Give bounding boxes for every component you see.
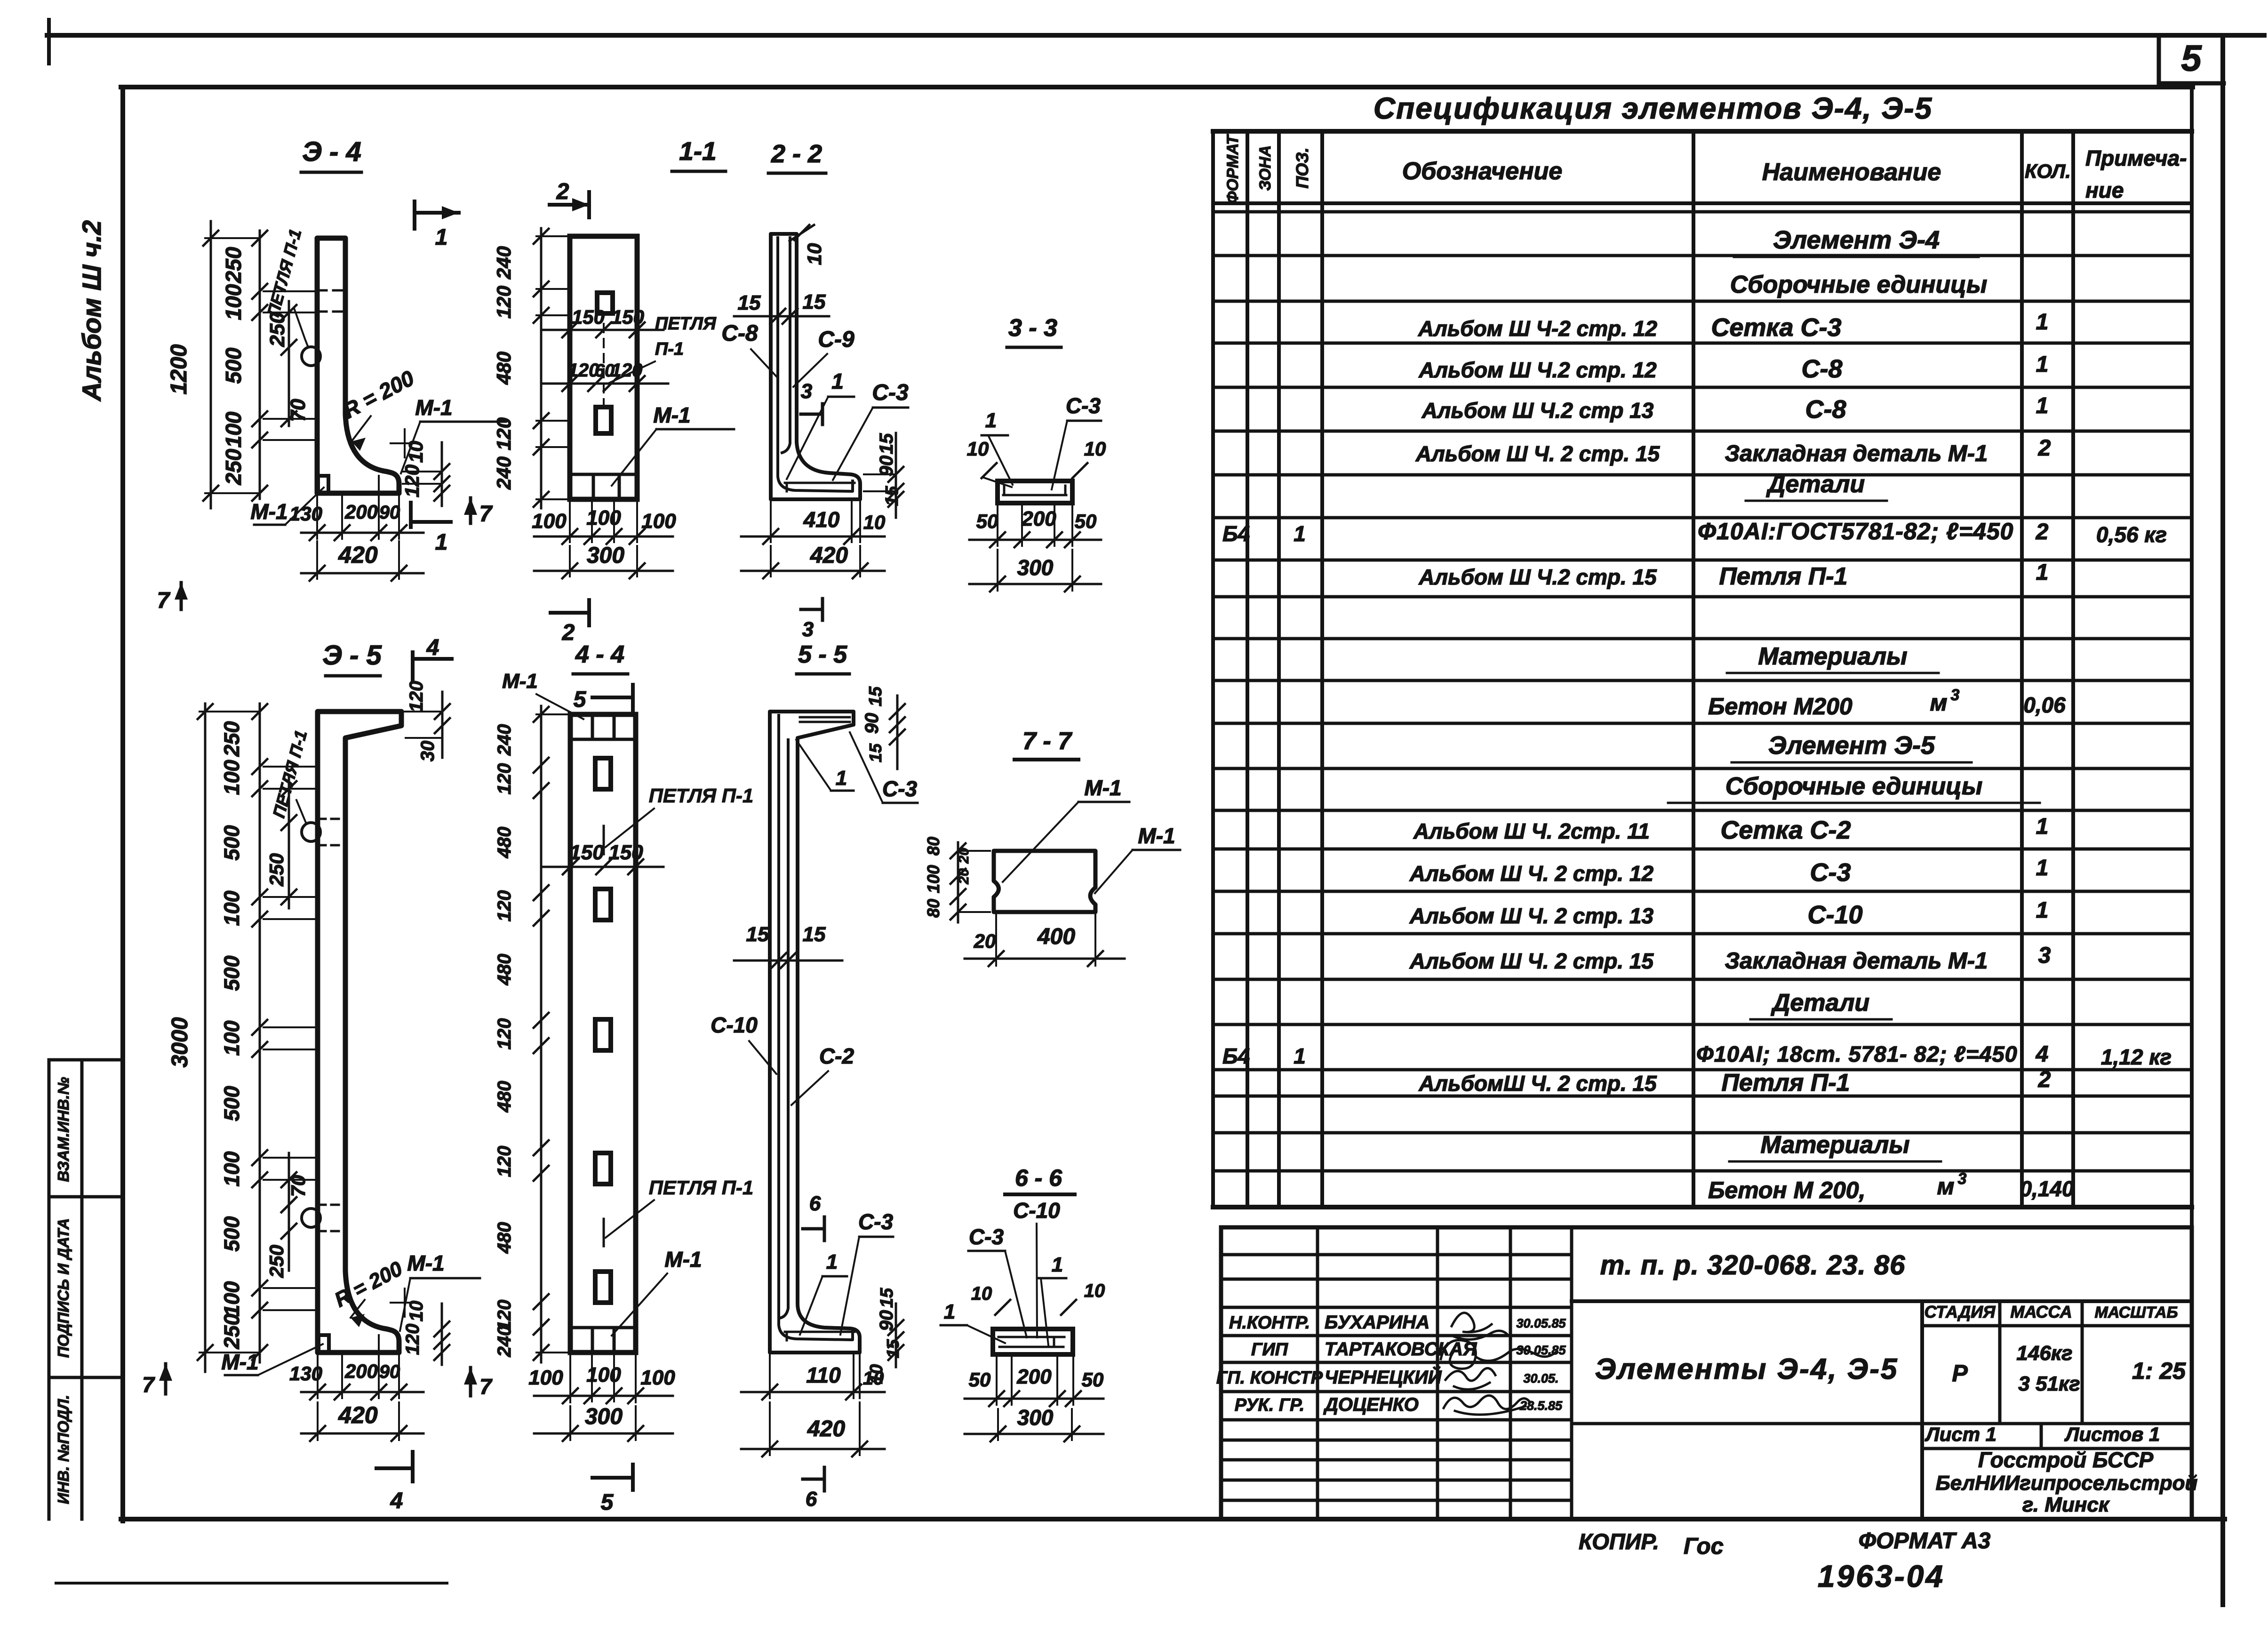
svg-text:Сборочные единицы: Сборочные единицы: [1725, 773, 1983, 800]
svg-text:15: 15: [877, 1288, 897, 1308]
svg-text:С-2: С-2: [819, 1044, 854, 1068]
svg-text:10: 10: [971, 1283, 992, 1304]
svg-text:Альбом Ш Ч. 2 стр. 15: Альбом Ш Ч. 2 стр. 15: [1415, 441, 1661, 466]
svg-text:100: 100: [220, 890, 244, 926]
svg-text:2 - 2: 2 - 2: [771, 140, 822, 168]
svg-text:Сетка С-2: Сетка С-2: [1720, 816, 1851, 844]
svg-text:250: 250: [265, 853, 287, 887]
svg-text:7: 7: [479, 1374, 493, 1399]
svg-text:БелНИИгипросельстрой: БелНИИгипросельстрой: [1936, 1472, 2198, 1495]
svg-text:Материалы: Материалы: [1760, 1131, 1909, 1159]
svg-text:100: 100: [220, 760, 244, 795]
svg-text:Сборочные единицы: Сборочные единицы: [1730, 271, 1988, 298]
svg-text:С-9: С-9: [818, 327, 854, 352]
svg-text:М-1: М-1: [664, 1247, 702, 1272]
svg-text:7: 7: [142, 1372, 155, 1397]
svg-text:М-1: М-1: [415, 395, 452, 420]
svg-text:250: 250: [265, 1245, 287, 1278]
svg-text:1: 1: [2036, 898, 2049, 923]
svg-text:100: 100: [532, 510, 567, 533]
svg-text:0,140: 0,140: [2020, 1177, 2074, 1201]
svg-text:20: 20: [956, 848, 972, 864]
svg-text:БУХАРИНА: БУХАРИНА: [1325, 1312, 1429, 1333]
svg-text:Бетон М200: Бетон М200: [1708, 693, 1853, 720]
svg-text:Спецификация элементов Э-4,: Спецификация элементов Э-4, Э-5: [1374, 91, 1933, 125]
svg-text:200: 200: [1021, 507, 1056, 530]
svg-text:3 - 3: 3 - 3: [1008, 314, 1057, 342]
svg-text:10: 10: [803, 243, 825, 265]
svg-text:10: 10: [967, 438, 989, 460]
svg-text:15: 15: [883, 1339, 902, 1358]
svg-text:1: 1: [1294, 1044, 1306, 1068]
svg-text:90: 90: [379, 1361, 400, 1382]
svg-text:3: 3: [1951, 686, 1960, 704]
svg-text:Б4: Б4: [1222, 1044, 1250, 1068]
svg-text:150: 150: [572, 306, 605, 328]
svg-text:Петля П-1: Петля П-1: [1719, 563, 1848, 590]
svg-text:1: 1: [985, 409, 997, 432]
svg-text:120: 120: [494, 763, 515, 795]
svg-text:5: 5: [574, 687, 587, 712]
svg-text:ние: ние: [2085, 178, 2124, 202]
svg-text:420: 420: [810, 543, 848, 568]
svg-text:150: 150: [611, 306, 644, 328]
svg-text:1: 1: [831, 369, 844, 393]
svg-text:М-1: М-1: [1084, 776, 1121, 800]
svg-text:2: 2: [562, 620, 575, 645]
svg-text:ДОЦЕНКО: ДОЦЕНКО: [1323, 1394, 1419, 1415]
svg-text:МАСШТАБ: МАСШТАБ: [2094, 1304, 2178, 1321]
svg-text:С-3: С-3: [969, 1225, 1004, 1249]
svg-text:5: 5: [601, 1490, 614, 1515]
svg-text:С-3: С-3: [872, 380, 909, 405]
svg-text:200: 200: [344, 1360, 378, 1382]
svg-text:100: 100: [220, 1020, 244, 1056]
svg-text:10: 10: [863, 1368, 884, 1389]
svg-text:3: 3: [2038, 943, 2051, 968]
svg-text:10: 10: [405, 441, 427, 463]
svg-text:5: 5: [2181, 37, 2202, 79]
svg-text:1-1: 1-1: [679, 136, 717, 166]
svg-text:1: 1: [2036, 560, 2049, 585]
svg-text:500: 500: [220, 955, 244, 991]
svg-text:100: 100: [220, 1151, 244, 1186]
svg-text:Материалы: Материалы: [1758, 643, 1907, 670]
svg-text:РУК. ГР.: РУК. ГР.: [1235, 1395, 1305, 1415]
svg-text:Б4: Б4: [1222, 521, 1250, 546]
svg-text:1: 1: [2036, 310, 2049, 335]
svg-text:м: м: [1937, 1173, 1955, 1200]
svg-text:ИНВ. №ПОДЛ.: ИНВ. №ПОДЛ.: [55, 1395, 72, 1504]
svg-text:250: 250: [220, 721, 244, 757]
svg-text:2: 2: [2038, 436, 2051, 461]
svg-text:Госстрой БССР: Госстрой БССР: [1978, 1448, 2154, 1472]
svg-text:ФОРМАТ А3: ФОРМАТ А3: [1859, 1529, 1991, 1553]
svg-text:М-1: М-1: [250, 499, 287, 524]
svg-text:90: 90: [876, 456, 897, 477]
svg-text:100: 100: [528, 1366, 563, 1389]
svg-text:300: 300: [1017, 555, 1054, 580]
svg-text:ГП. КОНСТР: ГП. КОНСТР: [1216, 1368, 1323, 1388]
svg-text:5 - 5: 5 - 5: [798, 641, 847, 668]
svg-text:М-1: М-1: [407, 1251, 444, 1275]
svg-text:250: 250: [221, 448, 246, 485]
svg-text:15: 15: [803, 290, 826, 313]
svg-text:90: 90: [876, 1310, 897, 1331]
svg-text:146кг: 146кг: [2016, 1342, 2072, 1365]
svg-text:30.05.: 30.05.: [1523, 1371, 1558, 1385]
svg-text:0,56 кг: 0,56 кг: [2096, 522, 2167, 547]
svg-text:Альбом Ш ч.2: Альбом Ш ч.2: [77, 220, 106, 402]
svg-text:100: 100: [220, 1281, 244, 1316]
svg-text:15: 15: [876, 433, 897, 454]
svg-text:480: 480: [494, 1222, 515, 1254]
svg-text:ПЕТЛЯ П-1: ПЕТЛЯ П-1: [649, 784, 754, 807]
svg-text:50: 50: [1075, 510, 1097, 532]
svg-text:С-3: С-3: [882, 776, 918, 801]
svg-text:70: 70: [287, 399, 310, 422]
svg-text:Альбом Ш Ч.2 стр 13: Альбом Ш Ч.2 стр 13: [1421, 398, 1654, 423]
svg-text:г. Минск: г. Минск: [2022, 1493, 2110, 1516]
svg-text:1: 1: [435, 530, 448, 555]
svg-text:4 - 4: 4 - 4: [575, 641, 624, 668]
svg-text:1: 25: 1: 25: [2132, 1358, 2186, 1384]
svg-text:ПОДПИСЬ И ДАТА: ПОДПИСЬ И ДАТА: [55, 1218, 72, 1358]
svg-text:90: 90: [862, 713, 882, 734]
svg-text:Гос: Гос: [1684, 1534, 1724, 1559]
svg-text:3: 3: [801, 380, 812, 403]
svg-text:120: 120: [406, 681, 427, 712]
svg-text:15: 15: [746, 923, 769, 946]
svg-text:250: 250: [221, 247, 246, 283]
svg-text:120: 120: [402, 1324, 423, 1355]
svg-text:6: 6: [806, 1488, 817, 1511]
svg-text:Бетон М 200,: Бетон М 200,: [1708, 1177, 1866, 1203]
svg-text:420: 420: [807, 1417, 845, 1441]
svg-text:Ф10АI; 18ст. 5781- 82; ℓ=450: Ф10АI; 18ст. 5781- 82; ℓ=450: [1696, 1041, 2018, 1066]
svg-text:ПЕТЛЯ: ПЕТЛЯ: [655, 314, 717, 334]
svg-text:1: 1: [944, 1300, 955, 1323]
svg-text:Наименование: Наименование: [1762, 159, 1941, 186]
svg-text:ЧЕРНЕЦКИЙ: ЧЕРНЕЦКИЙ: [1325, 1366, 1442, 1388]
svg-text:30.05.85: 30.05.85: [1516, 1316, 1566, 1330]
svg-text:Э - 5: Э - 5: [322, 640, 382, 671]
svg-text:10: 10: [1084, 438, 1106, 460]
svg-text:Элемент Э-5: Элемент Э-5: [1768, 731, 1935, 760]
svg-text:Альбом Ш Ч. 2 стр. 13: Альбом Ш Ч. 2 стр. 13: [1409, 904, 1654, 928]
svg-text:6: 6: [809, 1192, 821, 1215]
svg-text:100: 100: [641, 510, 676, 533]
svg-text:120: 120: [493, 417, 515, 450]
svg-text:20: 20: [974, 930, 996, 952]
svg-text:7: 7: [479, 502, 493, 527]
svg-text:120: 120: [494, 1146, 515, 1177]
svg-text:Примеча-: Примеча-: [2085, 146, 2187, 170]
svg-text:1: 1: [836, 767, 847, 790]
svg-text:3: 3: [802, 618, 814, 641]
svg-text:Обозначение: Обозначение: [1402, 158, 1563, 185]
svg-text:1963-04: 1963-04: [1818, 1559, 1945, 1593]
svg-text:1: 1: [1294, 521, 1306, 546]
svg-text:420: 420: [338, 1402, 378, 1428]
svg-text:15: 15: [882, 486, 902, 506]
svg-text:10: 10: [863, 511, 886, 533]
svg-text:300: 300: [585, 1404, 623, 1429]
svg-text:250: 250: [220, 1313, 244, 1349]
svg-text:Детали: Детали: [1766, 471, 1865, 498]
svg-text:4: 4: [390, 1489, 403, 1513]
svg-text:1,12 кг: 1,12 кг: [2101, 1045, 2172, 1069]
svg-text:120: 120: [493, 286, 515, 319]
svg-text:Закладная деталь М-1: Закладная деталь М-1: [1725, 441, 1988, 466]
svg-text:Альбом Ш Ч. 2стр. 11: Альбом Ш Ч. 2стр. 11: [1413, 819, 1650, 843]
svg-text:Листов 1: Листов 1: [2064, 1423, 2160, 1445]
svg-text:1200: 1200: [167, 344, 192, 394]
svg-text:400: 400: [1037, 924, 1075, 949]
svg-text:200: 200: [1016, 1365, 1052, 1388]
svg-text:0,06: 0,06: [2023, 693, 2066, 717]
svg-text:ГИП: ГИП: [1251, 1340, 1288, 1360]
svg-text:Элементы Э-4, Э-5: Элементы Э-4, Э-5: [1595, 1353, 1899, 1385]
svg-text:СТАДИЯ: СТАДИЯ: [1925, 1302, 1996, 1321]
svg-text:80: 80: [924, 837, 943, 856]
svg-text:1: 1: [435, 225, 448, 250]
svg-text:С-8: С-8: [1801, 355, 1842, 383]
svg-text:240: 240: [494, 1326, 515, 1358]
svg-text:480: 480: [494, 954, 515, 986]
svg-text:120: 120: [494, 1018, 515, 1050]
svg-text:Ф10АI:ГОСТ5781-82; ℓ=450: Ф10АI:ГОСТ5781-82; ℓ=450: [1698, 518, 2013, 544]
svg-text:Р: Р: [1952, 1360, 1968, 1386]
svg-text:ФОРМАТ: ФОРМАТ: [1224, 134, 1242, 204]
svg-text:10: 10: [406, 1301, 427, 1322]
svg-text:П-1: П-1: [655, 339, 684, 359]
svg-text:30: 30: [417, 741, 438, 762]
svg-text:150: 150: [608, 841, 643, 864]
svg-text:20: 20: [956, 868, 972, 885]
svg-text:4: 4: [426, 635, 439, 660]
svg-text:100: 100: [640, 1366, 675, 1389]
svg-text:500: 500: [220, 825, 244, 860]
svg-text:Альбом Ш Ч.2 стр. 12: Альбом Ш Ч.2 стр. 12: [1418, 358, 1657, 382]
svg-text:15: 15: [866, 743, 885, 762]
svg-text:М-1: М-1: [502, 670, 538, 693]
svg-text:м: м: [1930, 689, 1948, 716]
svg-text:150: 150: [569, 841, 604, 864]
svg-text:6 - 6: 6 - 6: [1015, 1165, 1062, 1191]
svg-text:Альбом Ш Ч. 2 стр. 15: Альбом Ш Ч. 2 стр. 15: [1409, 949, 1654, 973]
svg-text:Э - 4: Э - 4: [302, 136, 361, 167]
svg-text:80: 80: [924, 899, 943, 918]
svg-text:100: 100: [924, 865, 943, 893]
svg-text:ЗОНА: ЗОНА: [1256, 145, 1274, 191]
svg-text:МАССА: МАССА: [2010, 1302, 2072, 1321]
svg-text:ПЕТЛЯ П-1: ПЕТЛЯ П-1: [649, 1177, 754, 1199]
svg-text:ВЗАМ.ИНВ.№: ВЗАМ.ИНВ.№: [55, 1077, 72, 1182]
svg-text:т. п. р. 320-068. 23. 86: т. п. р. 320-068. 23. 86: [1600, 1250, 1906, 1281]
svg-text:3: 3: [1958, 1170, 1967, 1188]
svg-text:2: 2: [556, 179, 569, 204]
svg-text:М-1: М-1: [221, 1350, 258, 1374]
svg-text:3 51кг: 3 51кг: [2018, 1372, 2080, 1395]
svg-text:240: 240: [493, 246, 515, 280]
svg-text:15: 15: [738, 291, 761, 314]
svg-text:7 - 7: 7 - 7: [1022, 728, 1072, 755]
svg-text:Сетка С-3: Сетка С-3: [1711, 313, 1841, 342]
svg-text:15: 15: [866, 686, 886, 706]
svg-text:480: 480: [494, 1081, 515, 1113]
svg-text:Детали: Детали: [1771, 989, 1869, 1017]
svg-text:С-8: С-8: [1805, 395, 1846, 424]
svg-text:КОЛ.: КОЛ.: [2025, 160, 2071, 182]
svg-text:4: 4: [2036, 1042, 2049, 1067]
svg-text:С-3: С-3: [1066, 393, 1101, 418]
svg-text:Альбом Ш Ч.2 стр. 15: Альбом Ш Ч.2 стр. 15: [1418, 565, 1657, 589]
svg-text:С-8: С-8: [721, 321, 758, 346]
svg-text:М-1: М-1: [653, 403, 690, 427]
svg-text:100: 100: [586, 1363, 621, 1386]
svg-text:М-1: М-1: [1138, 824, 1175, 848]
svg-text:50: 50: [976, 510, 998, 532]
svg-text:200: 200: [344, 501, 378, 523]
svg-text:КОПИР.: КОПИР.: [1579, 1529, 1659, 1554]
svg-text:500: 500: [220, 1216, 244, 1251]
svg-text:ПОЗ.: ПОЗ.: [1293, 147, 1312, 188]
svg-text:Альбом Ш Ч-2 стр. 12: Альбом Ш Ч-2 стр. 12: [1418, 316, 1657, 341]
svg-text:120: 120: [401, 464, 423, 497]
svg-text:3000: 3000: [168, 1017, 192, 1067]
svg-text:1: 1: [1052, 1253, 1063, 1276]
svg-text:50: 50: [1082, 1369, 1104, 1391]
svg-text:С-10: С-10: [1807, 901, 1862, 929]
svg-text:100: 100: [221, 411, 246, 448]
svg-text:50: 50: [969, 1369, 991, 1391]
svg-text:Лист 1: Лист 1: [1925, 1423, 1996, 1445]
svg-text:500: 500: [220, 1086, 244, 1121]
svg-text:С-3: С-3: [1810, 858, 1851, 887]
svg-text:АльбомШ Ч. 2 стр. 15: АльбомШ Ч. 2 стр. 15: [1418, 1071, 1657, 1096]
svg-text:1: 1: [826, 1250, 838, 1273]
svg-text:420: 420: [338, 542, 378, 568]
svg-text:Элемент Э-4: Элемент Э-4: [1773, 226, 1940, 254]
svg-text:1: 1: [2036, 814, 2049, 839]
svg-text:С-3: С-3: [858, 1209, 894, 1234]
svg-text:7: 7: [157, 588, 171, 613]
svg-text:С-10: С-10: [711, 1013, 758, 1037]
svg-text:Н.КОНТР.: Н.КОНТР.: [1229, 1313, 1310, 1333]
svg-text:С-10: С-10: [1013, 1198, 1060, 1223]
svg-text:500: 500: [221, 347, 246, 384]
svg-text:100: 100: [586, 506, 621, 529]
svg-text:1: 1: [2036, 856, 2049, 881]
svg-text:110: 110: [806, 1363, 841, 1387]
svg-text:410: 410: [803, 507, 840, 532]
svg-text:15: 15: [803, 923, 826, 946]
svg-text:240: 240: [493, 456, 515, 490]
svg-text:480: 480: [494, 827, 515, 859]
svg-text:130: 130: [289, 1362, 322, 1385]
svg-text:480: 480: [493, 352, 515, 385]
svg-text:300: 300: [587, 543, 624, 568]
svg-text:10: 10: [1084, 1281, 1105, 1301]
svg-text:Альбом Ш Ч. 2 стр. 12: Альбом Ш Ч. 2 стр. 12: [1409, 861, 1654, 886]
svg-text:90: 90: [379, 502, 400, 523]
svg-text:1: 1: [2036, 393, 2049, 418]
svg-text:2: 2: [2038, 1067, 2051, 1092]
svg-text:240: 240: [494, 724, 515, 756]
svg-text:1: 1: [2036, 352, 2049, 377]
svg-text:130: 130: [289, 503, 322, 525]
svg-text:Закладная деталь М-1: Закладная деталь М-1: [1725, 948, 1988, 974]
svg-text:Петля П-1: Петля П-1: [1722, 1069, 1850, 1097]
svg-text:120: 120: [494, 890, 515, 922]
svg-text:100: 100: [221, 284, 246, 320]
svg-text:300: 300: [1017, 1405, 1054, 1430]
svg-text:2: 2: [2036, 520, 2049, 544]
